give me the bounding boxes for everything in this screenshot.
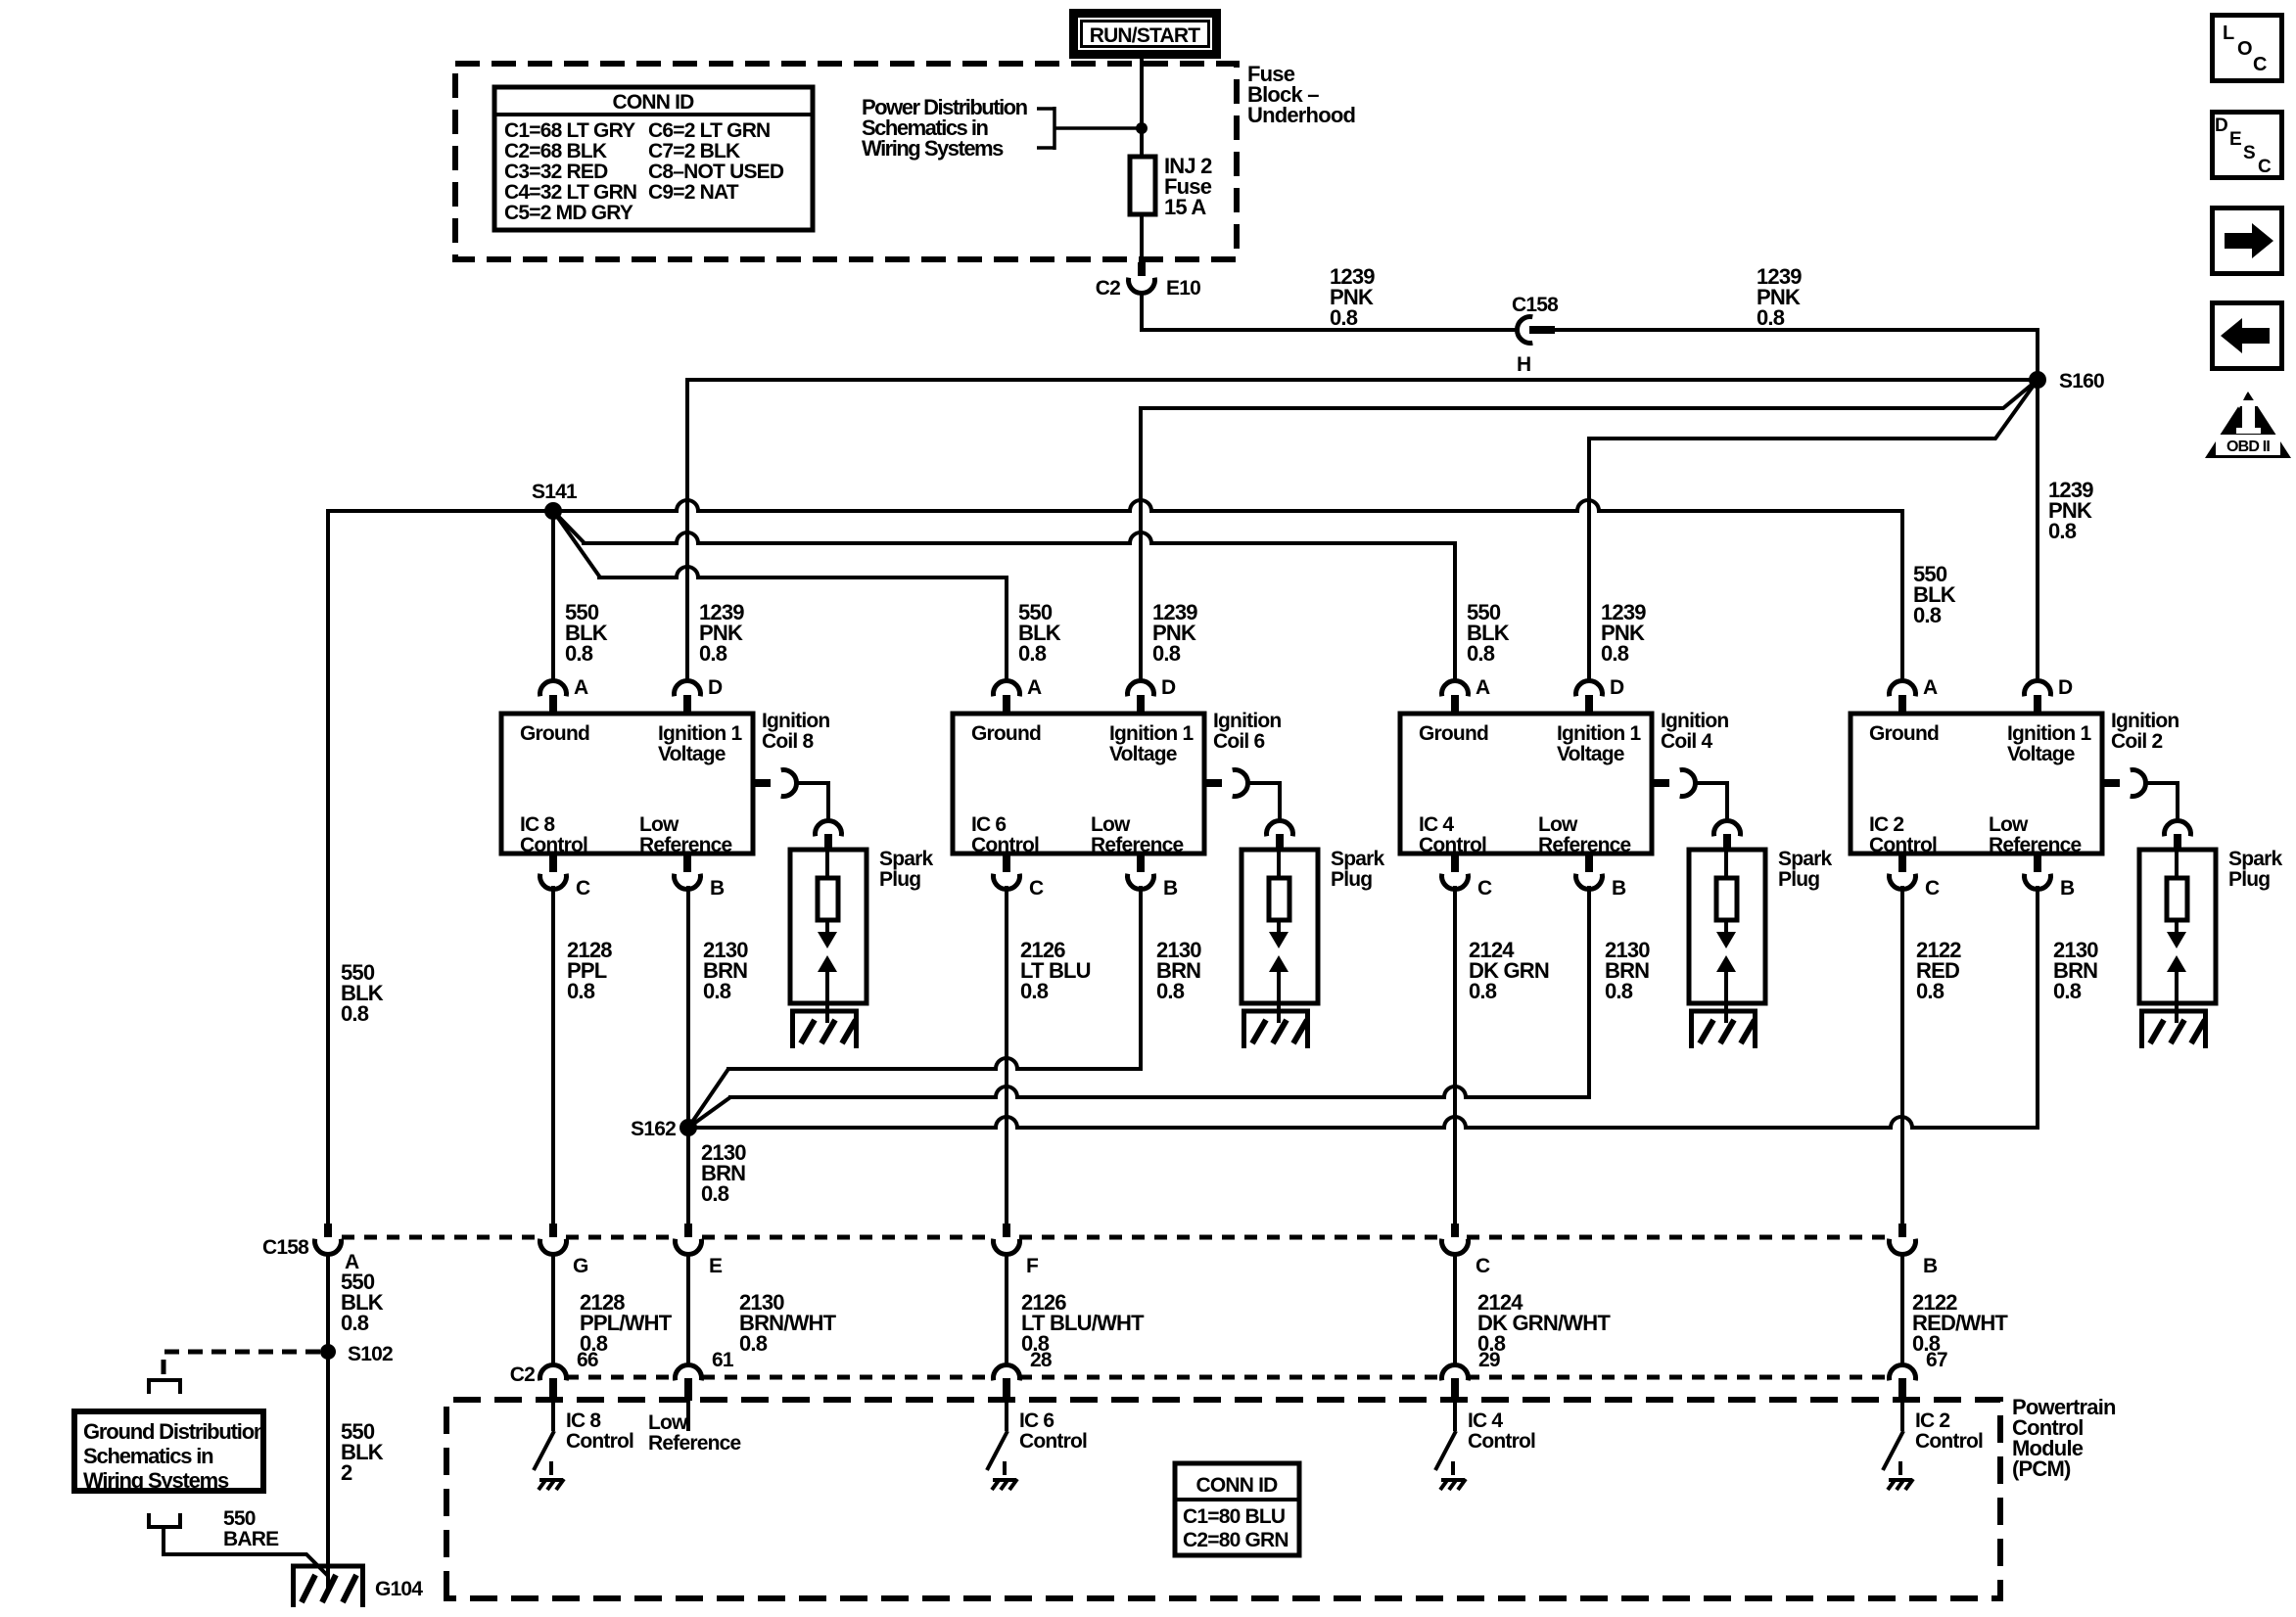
- svg-text:C: C: [2258, 157, 2272, 177]
- svg-text:Control: Control: [1915, 1430, 1983, 1453]
- pin A connector coil 4: [1442, 680, 1469, 696]
- svg-text:0.8: 0.8: [1757, 305, 1785, 330]
- svg-text:C1=80 BLU: C1=80 BLU: [1183, 1505, 1285, 1528]
- svg-text:Reference: Reference: [1091, 834, 1183, 856]
- svg-text:Ground Distribution: Ground Distribution: [83, 1419, 266, 1444]
- svg-text:C: C: [576, 877, 590, 900]
- svg-text:A: A: [1476, 676, 1490, 699]
- wire coil 6 control to PCM pin F: [1005, 886, 1008, 1227]
- wire RUN/START to fuse: [1140, 57, 1144, 157]
- svg-text:A: A: [1027, 676, 1042, 699]
- connector C2 E10: [1138, 262, 1146, 276]
- svg-text:C158: C158: [262, 1236, 309, 1259]
- svg-text:(PCM): (PCM): [2012, 1456, 2071, 1481]
- svg-text:G: G: [573, 1255, 588, 1277]
- svg-text:L: L: [2223, 23, 2234, 44]
- svg-text:0.8: 0.8: [341, 1001, 369, 1026]
- connector C158 pin C: [1451, 1224, 1459, 1237]
- wire coil 6 to spark plug: [1246, 783, 1280, 820]
- svg-text:0.8: 0.8: [2053, 979, 2082, 1003]
- svg-text:C2=68 BLK: C2=68 BLK: [504, 140, 607, 162]
- svg-text:Schematics in: Schematics in: [83, 1444, 213, 1468]
- svg-text:D: D: [1610, 676, 1624, 699]
- svg-text:Wiring Systems: Wiring Systems: [862, 136, 1004, 161]
- wire coil 8 low reference to S162: [686, 886, 690, 1130]
- svg-text:Ground: Ground: [971, 722, 1041, 745]
- wire coil 4 control to PCM pin C: [1453, 886, 1457, 1227]
- spark plug ground (coil 8): [790, 1009, 859, 1014]
- wire S141 to coil 4 ground pin: [553, 511, 585, 543]
- svg-text:Plug: Plug: [879, 868, 920, 891]
- svg-text:Coil 4: Coil 4: [1661, 730, 1712, 753]
- svg-text:Control: Control: [520, 834, 587, 856]
- svg-text:Spark: Spark: [1778, 848, 1832, 870]
- wire coil 4 low reference to S162: [1587, 886, 1591, 1099]
- svg-text:IC 8: IC 8: [520, 813, 555, 836]
- svg-text:IC 6: IC 6: [971, 813, 1006, 836]
- svg-text:Spark: Spark: [2228, 848, 2282, 870]
- svg-text:IC 2: IC 2: [1915, 1409, 1949, 1432]
- wire S141 to coil 8 ground pin: [551, 511, 555, 682]
- PCM IC 2 Control driver switch: [1900, 1401, 1904, 1431]
- spark plug connector (coil 8): [816, 820, 842, 836]
- connector C158 pin E: [684, 1224, 692, 1237]
- svg-text:0.8: 0.8: [1330, 305, 1358, 330]
- svg-text:Reference: Reference: [648, 1432, 740, 1455]
- ground distribution reference box: [74, 1411, 263, 1491]
- svg-text:Ignition 1: Ignition 1: [1109, 722, 1194, 745]
- ignition coil 4 box: [1400, 714, 1652, 854]
- connector C2 pin C (PCM terminal 29): [1453, 1255, 1457, 1367]
- svg-text:BARE: BARE: [223, 1528, 279, 1550]
- spark plug connector (coil 4): [1714, 820, 1741, 836]
- svg-text:Spark: Spark: [1331, 848, 1384, 870]
- wire coil 8 to spark plug: [795, 783, 828, 820]
- pin B connector coil 2: [2034, 854, 2041, 872]
- ignition coil 6 box: [953, 714, 1204, 854]
- svg-text:C6=2 LT GRN: C6=2 LT GRN: [648, 119, 770, 142]
- svg-text:Low: Low: [648, 1411, 688, 1434]
- svg-text:Low: Low: [639, 813, 679, 836]
- wire C158-A to S102: [326, 1253, 330, 1354]
- splice S162: [679, 1119, 697, 1136]
- icon DESC box: [2213, 113, 2282, 178]
- svg-text:29: 29: [1478, 1349, 1500, 1371]
- spark plug ground (coil 2): [2139, 1009, 2208, 1014]
- pin D connector coil 6: [1128, 680, 1154, 696]
- wire coil 6 low reference to S162: [1139, 886, 1143, 1071]
- svg-text:C: C: [2253, 54, 2267, 75]
- svg-text:C: C: [1476, 1255, 1490, 1277]
- svg-text:C3=32 RED: C3=32 RED: [504, 161, 608, 183]
- dashed reference branch from S102: [164, 1352, 320, 1375]
- wire S160 to coil 6 ignition feed: [1141, 380, 2038, 408]
- spark plug (coil 6): [1242, 850, 1318, 1003]
- svg-text:C8–NOT USED: C8–NOT USED: [648, 161, 784, 183]
- wire coil 2 to spark plug: [2144, 783, 2178, 820]
- svg-text:0.8: 0.8: [1152, 641, 1181, 666]
- splice S141: [544, 502, 562, 520]
- svg-text:Voltage: Voltage: [1557, 743, 1624, 765]
- svg-text:S162: S162: [631, 1118, 676, 1140]
- coil 6 secondary output connector: [1204, 779, 1222, 787]
- svg-text:550: 550: [223, 1507, 256, 1530]
- pin D connector coil 8: [675, 680, 701, 696]
- svg-text:RUN/START: RUN/START: [1090, 24, 1201, 47]
- wire coil 4 to spark plug: [1694, 783, 1727, 820]
- svg-text:C: C: [1029, 877, 1044, 900]
- CONN ID table (PCM): [1175, 1463, 1299, 1555]
- svg-text:B: B: [1612, 877, 1626, 900]
- svg-text:C1=68 LT GRY: C1=68 LT GRY: [504, 119, 635, 142]
- svg-text:Control: Control: [1468, 1430, 1535, 1453]
- connector row C2 (PCM) dashed line: [566, 1375, 1888, 1380]
- svg-text:Plug: Plug: [2228, 868, 2270, 891]
- svg-text:IC 8: IC 8: [566, 1409, 601, 1432]
- wire S102 to G104 ground: [326, 1352, 330, 1591]
- svg-text:0.8: 0.8: [1467, 641, 1495, 666]
- svg-text:Low: Low: [1091, 813, 1131, 836]
- ground G104: [291, 1564, 365, 1569]
- svg-text:Underhood: Underhood: [1247, 103, 1355, 127]
- svg-text:E: E: [2229, 129, 2241, 150]
- connector C158 H inline: [1517, 316, 1532, 343]
- pin D connector coil 4: [1575, 680, 1602, 696]
- wire coil 2 control to PCM pin B: [1900, 886, 1904, 1227]
- spark plug (coil 2): [2139, 850, 2216, 1003]
- svg-text:C: C: [1477, 877, 1492, 900]
- connector row C158 dashed line: [342, 1235, 1888, 1240]
- svg-text:Reference: Reference: [1538, 834, 1630, 856]
- svg-text:Ignition 1: Ignition 1: [1557, 722, 1641, 745]
- spark plug (coil 8): [790, 850, 867, 1003]
- svg-text:67: 67: [1926, 1349, 1947, 1371]
- bracket from ground distribution reference (bottom): [147, 1525, 182, 1529]
- PCM IC 6 Control driver switch: [1005, 1401, 1008, 1431]
- splice S102: [320, 1344, 336, 1360]
- svg-text:Reference: Reference: [1989, 834, 2081, 856]
- svg-text:D: D: [2058, 676, 2073, 699]
- pin D connector coil 2: [2025, 680, 2051, 696]
- svg-text:15 A: 15 A: [1164, 195, 1206, 219]
- pin B connector coil 4: [1585, 854, 1593, 872]
- svg-text:Control: Control: [971, 834, 1039, 856]
- pin B connector coil 8: [683, 854, 691, 872]
- svg-text:0.8: 0.8: [1156, 979, 1185, 1003]
- svg-text:C7=2 BLK: C7=2 BLK: [648, 140, 740, 162]
- svg-text:Ignition: Ignition: [2111, 710, 2179, 732]
- wire S141 left to ground bus: [328, 509, 553, 513]
- svg-text:S102: S102: [348, 1343, 393, 1365]
- svg-text:0.8: 0.8: [1916, 979, 1945, 1003]
- svg-text:C2: C2: [1096, 277, 1120, 300]
- svg-text:D: D: [708, 676, 723, 699]
- pin C connector coil 8: [549, 854, 557, 872]
- wire S160 to coil 8 ignition feed: [687, 378, 2038, 382]
- spark plug (coil 4): [1689, 850, 1765, 1003]
- svg-text:H: H: [1517, 353, 1530, 376]
- svg-text:F: F: [1026, 1255, 1039, 1277]
- pin C connector coil 6: [1003, 854, 1010, 872]
- svg-text:B: B: [2060, 877, 2075, 900]
- svg-text:A: A: [1923, 676, 1938, 699]
- svg-text:Voltage: Voltage: [1109, 743, 1177, 765]
- connector C2 pin F (PCM terminal 28): [1005, 1255, 1008, 1367]
- wire S160 to coil 4 ignition feed: [1589, 380, 2038, 439]
- coil 2 secondary output connector: [2102, 779, 2120, 787]
- connector C2 pin G (PCM terminal 66): [551, 1255, 555, 1367]
- wire PCM pin E inside: [686, 1401, 690, 1431]
- svg-text:Coil 2: Coil 2: [2111, 730, 2162, 753]
- pin C connector coil 4: [1451, 854, 1459, 872]
- svg-text:S: S: [2243, 143, 2255, 163]
- svg-text:2: 2: [341, 1460, 352, 1485]
- svg-text:CONN ID: CONN ID: [1195, 1474, 1278, 1497]
- svg-text:Plug: Plug: [1331, 868, 1372, 891]
- svg-text:IC 4: IC 4: [1419, 813, 1454, 836]
- svg-text:Ground: Ground: [1419, 722, 1488, 745]
- icon forward arrow box: [2213, 208, 2282, 274]
- pin A connector coil 8: [540, 680, 567, 696]
- svg-text:IC 2: IC 2: [1869, 813, 1903, 836]
- svg-text:Spark: Spark: [879, 848, 933, 870]
- connector C158 pin B: [1898, 1224, 1906, 1237]
- svg-text:Coil 6: Coil 6: [1213, 730, 1264, 753]
- svg-text:O: O: [2237, 38, 2252, 60]
- coil 4 secondary output connector: [1652, 779, 1669, 787]
- svg-text:Control: Control: [1869, 834, 1937, 856]
- svg-text:0.8: 0.8: [567, 979, 595, 1003]
- svg-text:0.8: 0.8: [1469, 979, 1497, 1003]
- svg-text:Wiring Systems: Wiring Systems: [83, 1468, 229, 1493]
- svg-text:C: C: [1925, 877, 1940, 900]
- svg-text:Plug: Plug: [1778, 868, 1819, 891]
- svg-text:0.8: 0.8: [341, 1311, 369, 1335]
- splice S160: [2029, 371, 2046, 389]
- svg-text:D: D: [1161, 676, 1176, 699]
- svg-text:B: B: [710, 877, 725, 900]
- svg-text:E: E: [709, 1255, 723, 1277]
- PCM IC 8 Control driver switch: [551, 1401, 555, 1431]
- node junction on fuse feed: [1136, 122, 1148, 134]
- svg-text:D: D: [2215, 115, 2227, 136]
- svg-text:Low: Low: [1989, 813, 2029, 836]
- icon LOC box: [2213, 16, 2282, 81]
- wire S160 to coil 2 ignition feed: [2036, 380, 2039, 682]
- svg-text:C2=80 GRN: C2=80 GRN: [1183, 1529, 1289, 1551]
- wire S141 to coil 2 ground pin (550 BLK bus): [553, 500, 1902, 511]
- svg-text:28: 28: [1030, 1349, 1053, 1371]
- svg-text:Ground: Ground: [1869, 722, 1939, 745]
- ignition coil 2 box: [1851, 714, 2102, 854]
- reference bracket to power distribution: [1037, 107, 1054, 111]
- svg-text:0.8: 0.8: [565, 641, 593, 666]
- powertrain control module dashed box: [446, 1400, 2000, 1598]
- svg-text:0.8: 0.8: [699, 641, 727, 666]
- svg-text:Voltage: Voltage: [2007, 743, 2075, 765]
- svg-text:0.8: 0.8: [1020, 979, 1049, 1003]
- svg-text:E10: E10: [1166, 277, 1200, 300]
- svg-text:B: B: [1923, 1255, 1938, 1277]
- ignition switch feed RUN/START box: [1074, 14, 1217, 55]
- svg-text:CONN ID: CONN ID: [612, 91, 694, 114]
- connector C158 pin F: [1003, 1224, 1010, 1237]
- svg-text:Control: Control: [1419, 834, 1486, 856]
- svg-text:C4=32 LT GRN: C4=32 LT GRN: [504, 181, 636, 204]
- connector C158 pin G: [549, 1224, 557, 1237]
- svg-text:A: A: [574, 676, 588, 699]
- svg-text:Control: Control: [566, 1430, 633, 1453]
- svg-text:Voltage: Voltage: [658, 743, 726, 765]
- ignition coil 8 box: [501, 714, 753, 854]
- svg-text:C9=2 NAT: C9=2 NAT: [648, 181, 739, 204]
- connector C2 pin B (PCM terminal 67): [1900, 1255, 1904, 1367]
- svg-text:0.8: 0.8: [2048, 519, 2077, 543]
- wire coil 8 control to PCM pin G: [551, 886, 555, 1227]
- svg-text:Ignition 1: Ignition 1: [2007, 722, 2091, 745]
- wire S162 to PCM pin E: [686, 1128, 690, 1227]
- wire coil 2 low reference to S162: [2036, 886, 2039, 1130]
- svg-text:G104: G104: [375, 1578, 423, 1600]
- wire fuse to connector C2/E10: [1140, 214, 1144, 266]
- pin C connector coil 2: [1898, 854, 1906, 872]
- coil 8 secondary output connector: [753, 779, 771, 787]
- fuse block underhood dashed box: [455, 64, 1237, 259]
- wire 1239 PNK E10 to C158: [1142, 328, 1519, 332]
- svg-text:Ignition: Ignition: [762, 710, 829, 732]
- svg-text:0.8: 0.8: [701, 1181, 729, 1206]
- svg-text:Ignition 1: Ignition 1: [658, 722, 742, 745]
- connector C2 pin E (PCM terminal 61): [686, 1255, 690, 1367]
- svg-text:Ignition: Ignition: [1661, 710, 1728, 732]
- svg-text:0.8: 0.8: [703, 979, 731, 1003]
- svg-text:Reference: Reference: [639, 834, 731, 856]
- wire 1239 PNK C158 to S160 corner: [1553, 328, 2038, 332]
- svg-text:66: 66: [577, 1349, 598, 1371]
- PCM IC 4 Control driver switch: [1453, 1401, 1457, 1431]
- svg-text:IC 4: IC 4: [1468, 1409, 1503, 1432]
- svg-text:0.8: 0.8: [1913, 603, 1942, 627]
- pin A connector coil 6: [994, 680, 1020, 696]
- CONN ID table (fuse block): [494, 87, 813, 230]
- pin A connector coil 2: [1890, 680, 1916, 696]
- svg-text:IC 6: IC 6: [1019, 1409, 1054, 1432]
- svg-text:0.8: 0.8: [1018, 641, 1047, 666]
- svg-text:Control: Control: [1019, 1430, 1087, 1453]
- pin B connector coil 6: [1137, 854, 1145, 872]
- spark plug ground (coil 4): [1689, 1009, 1757, 1014]
- svg-text:0.8: 0.8: [739, 1331, 768, 1356]
- icon back arrow box: [2213, 303, 2282, 369]
- svg-text:0.8: 0.8: [1601, 641, 1629, 666]
- connector C158 pin A: [324, 1224, 332, 1237]
- spark plug ground (coil 6): [1242, 1009, 1310, 1014]
- svg-text:0.8: 0.8: [1605, 979, 1633, 1003]
- svg-text:C5=2 MD GRY: C5=2 MD GRY: [504, 202, 633, 224]
- spark plug connector (coil 2): [2165, 820, 2191, 836]
- svg-text:Ignition: Ignition: [1213, 710, 1281, 732]
- wire 550 BARE to G104: [164, 1527, 328, 1576]
- svg-text:C158: C158: [1512, 294, 1559, 316]
- svg-text:C2: C2: [510, 1363, 535, 1386]
- svg-text:Ground: Ground: [520, 722, 589, 745]
- svg-text:Low: Low: [1538, 813, 1578, 836]
- svg-text:B: B: [1163, 877, 1178, 900]
- svg-text:S160: S160: [2059, 370, 2104, 393]
- fuse INJ 2 15A symbol: [1130, 157, 1155, 214]
- bracket to ground distribution reference (top): [147, 1378, 182, 1382]
- svg-text:OBD II: OBD II: [2226, 439, 2270, 455]
- icon OBD II triangle: [2205, 392, 2291, 458]
- wire E10 down to PNK run: [1140, 291, 1144, 332]
- spark plug connector (coil 6): [1267, 820, 1293, 836]
- svg-text:Coil 8: Coil 8: [762, 730, 814, 753]
- svg-text:S141: S141: [532, 481, 578, 503]
- wire S141 to coil 6 ground pin: [553, 511, 600, 577]
- svg-text:61: 61: [712, 1349, 734, 1371]
